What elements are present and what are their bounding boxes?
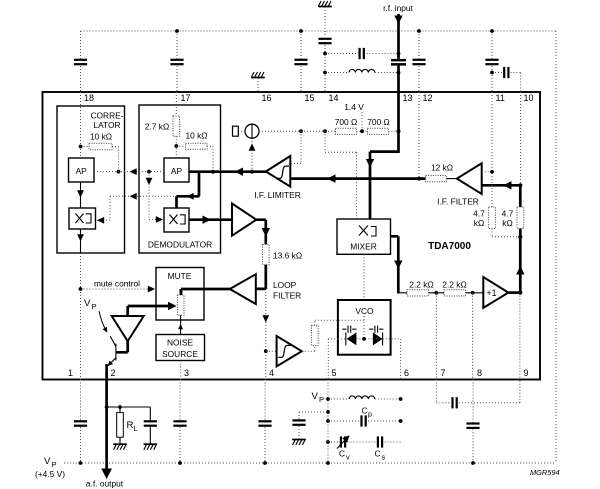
svg-text:12: 12 <box>423 93 433 103</box>
svg-text:12 kΩ: 12 kΩ <box>431 163 453 173</box>
svg-text:C: C <box>339 449 345 459</box>
svg-text:C: C <box>375 449 381 459</box>
svg-text:3: 3 <box>184 368 189 378</box>
svg-text:10: 10 <box>524 93 534 103</box>
svg-text:5: 5 <box>332 368 337 378</box>
svg-text:4.7: 4.7 <box>502 209 514 219</box>
svg-text:V: V <box>312 391 319 402</box>
svg-text:s: s <box>382 453 386 462</box>
svg-text:AP: AP <box>76 166 88 176</box>
svg-text:L: L <box>134 424 138 433</box>
svg-text:VCO: VCO <box>355 306 374 316</box>
svg-text:CORRE-: CORRE- <box>90 111 123 121</box>
svg-text:(+4.5 V): (+4.5 V) <box>35 469 65 479</box>
svg-text:I.F. LIMITER: I.F. LIMITER <box>254 190 301 200</box>
svg-text:a.f. output: a.f. output <box>86 479 124 489</box>
svg-text:+1: +1 <box>487 288 497 298</box>
svg-text:kΩ: kΩ <box>502 218 512 228</box>
svg-text:13: 13 <box>403 93 413 103</box>
svg-text:R: R <box>127 420 134 431</box>
svg-text:LOOP: LOOP <box>273 280 297 290</box>
svg-text:kΩ: kΩ <box>474 218 484 228</box>
svg-text:10 kΩ: 10 kΩ <box>185 131 207 141</box>
svg-text:2.2 kΩ: 2.2 kΩ <box>409 280 433 290</box>
svg-text:I.F. FILTER: I.F. FILTER <box>437 197 479 207</box>
svg-text:v: v <box>346 453 350 462</box>
svg-text:17: 17 <box>181 93 191 103</box>
svg-text:13.6 kΩ: 13.6 kΩ <box>273 251 302 261</box>
svg-text:LATOR: LATOR <box>93 120 120 130</box>
svg-text:V: V <box>84 298 91 309</box>
svg-text:2.7 kΩ: 2.7 kΩ <box>145 122 169 132</box>
svg-text:P: P <box>319 395 324 404</box>
svg-text:MUTE: MUTE <box>168 271 192 281</box>
svg-text:V: V <box>44 456 51 467</box>
svg-text:MIXER: MIXER <box>350 242 377 252</box>
svg-text:P: P <box>52 460 57 469</box>
svg-text:2: 2 <box>111 368 116 378</box>
svg-text:FILTER: FILTER <box>273 291 301 301</box>
svg-text:16: 16 <box>262 93 272 103</box>
svg-text:11: 11 <box>496 93 505 103</box>
svg-text:8: 8 <box>477 368 482 378</box>
svg-text:SOURCE: SOURCE <box>162 349 198 359</box>
svg-text:P: P <box>92 302 97 311</box>
svg-text:18: 18 <box>84 93 94 103</box>
svg-text:p: p <box>368 412 372 419</box>
svg-text:TDA7000: TDA7000 <box>428 241 471 252</box>
svg-text:10 kΩ: 10 kΩ <box>90 132 112 142</box>
svg-text:AP: AP <box>171 166 183 176</box>
svg-text:14: 14 <box>329 93 339 103</box>
svg-text:700 Ω: 700 Ω <box>335 117 358 127</box>
svg-text:6: 6 <box>404 368 409 378</box>
svg-text:7: 7 <box>441 368 446 378</box>
svg-text:4.7: 4.7 <box>473 209 485 219</box>
svg-text:2.2 kΩ: 2.2 kΩ <box>442 280 466 290</box>
svg-text:C: C <box>362 406 368 416</box>
svg-text:NOISE: NOISE <box>167 338 193 348</box>
svg-text:700 Ω: 700 Ω <box>367 117 390 127</box>
svg-text:9: 9 <box>524 368 529 378</box>
svg-text:MGR594: MGR594 <box>530 468 560 477</box>
svg-text:1: 1 <box>68 368 73 378</box>
svg-text:DEMODULATOR: DEMODULATOR <box>148 240 212 250</box>
svg-text:r.f. input: r.f. input <box>383 3 413 13</box>
svg-text:4: 4 <box>269 368 274 378</box>
svg-text:1.4 V: 1.4 V <box>344 102 364 112</box>
svg-text:mute control: mute control <box>94 279 140 289</box>
svg-text:15: 15 <box>305 93 315 103</box>
